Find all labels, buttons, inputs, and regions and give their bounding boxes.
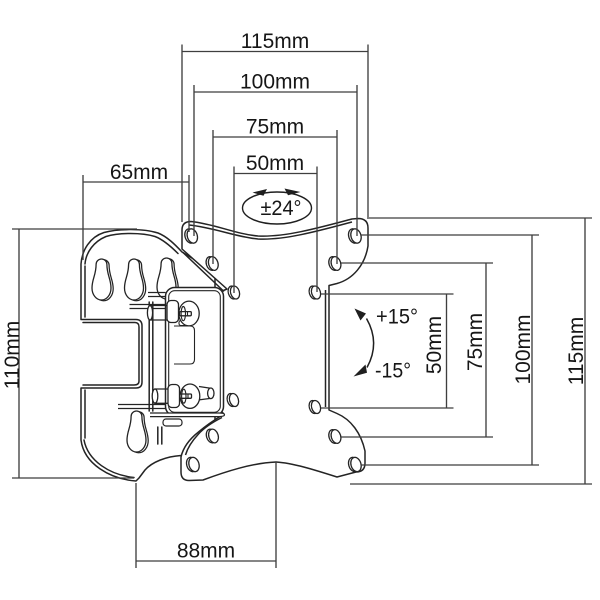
svg-text:88mm: 88mm — [177, 540, 235, 563]
svg-text:-15°: -15° — [375, 360, 411, 383]
svg-text:115mm: 115mm — [241, 30, 309, 53]
svg-text:110mm: 110mm — [1, 321, 24, 389]
svg-text:+15°: +15° — [376, 306, 418, 329]
svg-text:100mm: 100mm — [512, 314, 535, 384]
svg-text:50mm: 50mm — [423, 316, 446, 374]
svg-text:75mm: 75mm — [464, 313, 487, 371]
svg-text:115mm: 115mm — [565, 317, 588, 385]
svg-text:50mm: 50mm — [246, 152, 304, 175]
svg-text:±24°: ±24° — [261, 197, 302, 220]
svg-text:100mm: 100mm — [240, 71, 310, 94]
svg-text:75mm: 75mm — [246, 116, 304, 139]
svg-text:65mm: 65mm — [110, 161, 168, 184]
